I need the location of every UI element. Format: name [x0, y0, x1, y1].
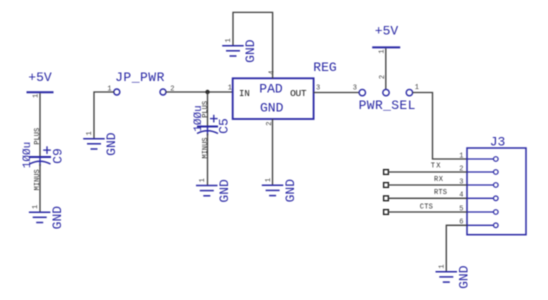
svg-text:1: 1	[199, 178, 207, 182]
wire C9 to GND	[39, 164, 41, 212]
svg-text:GND: GND	[243, 39, 258, 63]
svg-text:GND: GND	[50, 206, 65, 230]
svg-text:1: 1	[228, 85, 232, 93]
svg-text:+5V: +5V	[28, 70, 52, 85]
jumper PWR_SEL	[353, 75, 419, 113]
capacitor C5	[193, 92, 231, 159]
svg-text:1ØØu: 1ØØu	[22, 142, 34, 168]
capacitor C9	[22, 128, 65, 191]
wire JP pin1 to ground	[94, 92, 114, 139]
svg-text:1: 1	[459, 152, 463, 160]
svg-text:J3: J3	[490, 135, 506, 150]
voltage regulator REG	[228, 60, 337, 126]
svg-text:JP_PWR: JP_PWR	[115, 70, 165, 85]
svg-text:GND: GND	[260, 101, 284, 116]
svg-text:GND: GND	[283, 179, 298, 203]
jumper JP_PWR	[107, 70, 174, 95]
svg-text:+5V: +5V	[375, 24, 399, 39]
svg-text:1: 1	[415, 84, 419, 92]
svg-text:CTS: CTS	[420, 204, 433, 212]
svg-text:1: 1	[439, 264, 447, 268]
svg-text:IN: IN	[239, 89, 250, 99]
svg-text:3: 3	[353, 85, 357, 93]
net RX	[384, 176, 467, 188]
svg-text:GND: GND	[104, 132, 119, 156]
svg-text:RTS: RTS	[434, 189, 447, 197]
svg-text:MINUS: MINUS	[202, 137, 210, 158]
wire regulator pin4 to top ground	[233, 12, 273, 78]
svg-text:PAD: PAD	[259, 81, 283, 96]
svg-text:1: 1	[32, 94, 40, 98]
svg-text:RX: RX	[434, 176, 444, 184]
junction	[205, 90, 209, 94]
wire C5 to GND	[207, 134, 209, 186]
ground (C9)	[29, 205, 65, 230]
svg-text:OUT: OUT	[290, 88, 307, 99]
+5V supply left	[27, 70, 54, 98]
svg-text:2: 2	[379, 75, 387, 79]
ground (JP_PWR)	[83, 131, 119, 156]
ground (top)	[222, 38, 258, 63]
ground (REG)	[262, 178, 298, 203]
svg-text:PLUS: PLUS	[34, 128, 42, 145]
wire regulator OUT to PWR_SEL pin3	[314, 92, 360, 94]
connector J3	[459, 135, 526, 235]
svg-text:3: 3	[316, 85, 320, 93]
svg-text:1: 1	[32, 205, 40, 209]
svg-text:PWR_SEL: PWR_SEL	[359, 98, 416, 113]
svg-text:GND: GND	[457, 265, 472, 289]
+5V supply right	[372, 24, 400, 54]
wire JP pin2 to regulator IN	[166, 91, 233, 93]
net TX	[384, 163, 467, 175]
wire J3 pin6 to ground	[446, 225, 467, 271]
net RTS	[384, 189, 467, 201]
svg-text:1ØØu: 1ØØu	[193, 105, 205, 131]
wire +5V to C9	[39, 93, 41, 157]
wire PWR_SEL pin1 to J3 pin1	[413, 93, 467, 160]
svg-text:1: 1	[225, 38, 233, 42]
ground (bottom right)	[436, 264, 472, 289]
svg-text:1: 1	[86, 131, 94, 135]
svg-text:MINUS: MINUS	[34, 169, 42, 190]
wire +5V to PWR_SEL pin2	[385, 48, 387, 89]
svg-text:REG: REG	[313, 60, 336, 75]
net CTS	[384, 204, 467, 215]
wire regulator pin2 to ground	[272, 119, 274, 185]
svg-text:C9: C9	[50, 148, 65, 164]
ground (C5)	[196, 178, 232, 203]
svg-text:C5: C5	[216, 118, 231, 134]
svg-text:1: 1	[265, 178, 273, 182]
svg-text:TX: TX	[431, 163, 442, 171]
svg-text:GND: GND	[217, 179, 232, 203]
